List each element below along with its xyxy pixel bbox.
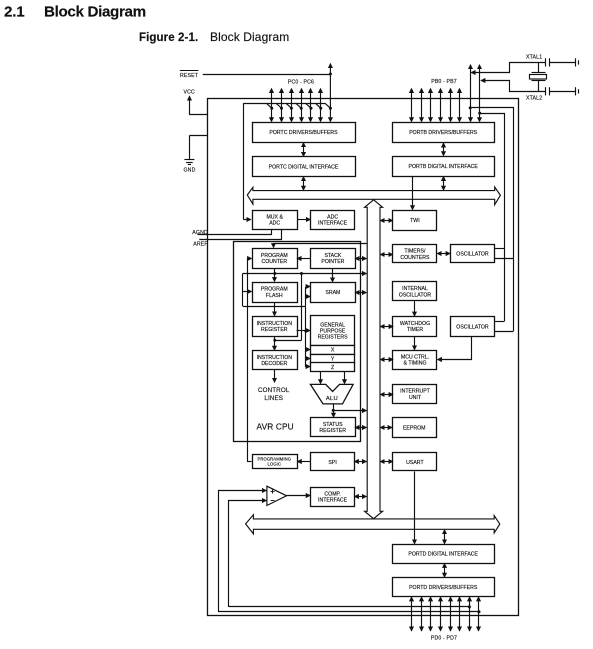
- GND wire horizontal: [189, 135, 207, 137]
- wire program counter left to programming logic: [247, 258, 249, 462]
- wire comp interface to bus: [355, 496, 367, 498]
- port C pin wire PC4: [310, 89, 312, 122]
- USART: [393, 453, 437, 471]
- AREF wire: [199, 229, 281, 240]
- wire PORTB digital interface to TWI: [412, 176, 414, 210]
- wire W1 loop to bus: [243, 273, 367, 275]
- port D pin wire PD5: [459, 597, 461, 631]
- watchdog timer: [393, 317, 437, 337]
- junction dot PC1 tap: [280, 107, 283, 110]
- svg-text:COUNTER: COUNTER: [261, 259, 287, 265]
- port C pin wire PC3: [301, 89, 303, 122]
- port D digital interface: [393, 545, 495, 564]
- port B pin wire PB7 / XTAL2: [479, 65, 481, 122]
- wire EEPROM to bus: [380, 427, 392, 429]
- capacitor C1 right plate: [549, 58, 551, 66]
- RESET overline: [180, 70, 199, 72]
- arrow ALU branch to bus: [333, 410, 366, 412]
- svg-text:DECODER: DECODER: [261, 361, 287, 367]
- port C pin wire PC1: [281, 89, 283, 122]
- arrow MUX to ADC interface: [297, 219, 310, 221]
- diagonal tap PC5: [315, 103, 321, 108]
- port B digital interface: [393, 157, 495, 177]
- stack pointer: [311, 249, 356, 269]
- port D pin wire PD4: [450, 597, 452, 631]
- arrow stack pointer to program counter: [297, 258, 310, 260]
- svg-text:Y: Y: [331, 356, 335, 362]
- wire USART to PORTD digital interface: [414, 471, 416, 543]
- arrow W1 into program flash left: [243, 291, 252, 293]
- svg-text:INTERNAL: INTERNAL: [402, 286, 428, 292]
- svg-text:OSCILLATOR: OSCILLATOR: [399, 292, 432, 298]
- instruction register: [253, 317, 298, 337]
- ALU: [310, 384, 353, 404]
- analog input rail vertical: [243, 103, 245, 219]
- svg-text:AVR CPU: AVR CPU: [257, 422, 294, 432]
- upper horizontal data bus arrow: [247, 187, 500, 205]
- svg-text:AREF: AREF: [193, 241, 207, 247]
- svg-text:LOGIC: LOGIC: [268, 462, 282, 467]
- arrow into program counter top: [273, 244, 275, 248]
- port D pin wire PD6: [469, 597, 471, 631]
- svg-text:OSCILLATOR: OSCILLATOR: [456, 252, 489, 258]
- wire PORTD digital to drivers: [444, 564, 446, 578]
- svg-text:X: X: [331, 348, 335, 354]
- oscillator lower stub to XTAL1 rail: [495, 331, 514, 333]
- diagonal tap PC6: [325, 103, 331, 108]
- XTAL1 wire to cap end: [550, 62, 576, 64]
- svg-text:PURPOSE: PURPOSE: [320, 329, 346, 335]
- svg-text:COMP.: COMP.: [324, 491, 340, 497]
- SPI: [311, 453, 355, 471]
- arrow V2 into X register: [306, 349, 310, 351]
- svg-text:PROGRAM: PROGRAM: [261, 287, 288, 293]
- program flash: [253, 283, 298, 303]
- wire PORTB drivers to digital interface: [443, 143, 445, 156]
- comparator + wire along bottom: [218, 611, 479, 613]
- analog comparator: [267, 486, 287, 505]
- XTAL2 wire to cap end: [550, 91, 576, 93]
- svg-text:XTAL1: XTAL1: [526, 55, 542, 61]
- analog input rail horizontal: [243, 103, 325, 105]
- svg-text:LINES: LINES: [264, 395, 283, 402]
- arrow GPR to ALU right: [344, 371, 346, 383]
- junction dot PC3 tap: [300, 107, 303, 110]
- VCC wire vertical with arrow up: [189, 96, 191, 115]
- diagonal tap PC4: [306, 103, 312, 108]
- comparator interface: [311, 488, 355, 507]
- wire timers/counters to bus: [380, 254, 392, 256]
- svg-text:CONTROL: CONTROL: [258, 387, 290, 394]
- instruction decoder: [253, 351, 298, 370]
- svg-text:VCC: VCC: [184, 90, 196, 96]
- svg-text:Block Diagram: Block Diagram: [210, 30, 289, 44]
- wire status register to bus: [355, 427, 366, 429]
- svg-text:PORTB DIGITAL INTERFACE: PORTB DIGITAL INTERFACE: [409, 164, 479, 170]
- junction dot PC5 tap: [319, 107, 322, 110]
- svg-text:TIMER: TIMER: [407, 327, 423, 333]
- diagonal tap PC2: [286, 103, 292, 108]
- C2 end terminal stub: [578, 89, 580, 93]
- wire SRAM to bus: [355, 292, 366, 294]
- port D pin wire PD0: [411, 597, 413, 631]
- port D pin wire PD1: [421, 597, 423, 631]
- AVR CPU enclosure box: [234, 242, 361, 442]
- EEPROM: [393, 418, 437, 438]
- diagonal tap PC0: [266, 103, 272, 108]
- diagonal tap PC1: [276, 103, 282, 108]
- wire W1 loop bottom: [243, 306, 306, 308]
- wire stack pointer to bus: [355, 258, 366, 260]
- junction W1 and PC-PF wire: [273, 272, 276, 275]
- port C pin wire PC0: [271, 89, 273, 122]
- junction dot PC0 tap: [270, 107, 273, 110]
- svg-text:PB0 - PB7: PB0 - PB7: [431, 79, 457, 85]
- svg-text:Figure 2-1.: Figure 2-1.: [139, 32, 198, 44]
- AGND wire: [198, 229, 272, 235]
- svg-text:STATUS: STATUS: [323, 422, 343, 428]
- port B pin wire PB2: [430, 89, 432, 122]
- svg-text:TWI: TWI: [410, 218, 420, 224]
- TWI: [393, 211, 437, 231]
- svg-text:MCU CTRL.: MCU CTRL.: [401, 354, 429, 360]
- wire V2 vertical: [305, 287, 307, 367]
- svg-text:GENERAL: GENERAL: [320, 322, 345, 328]
- svg-text:PC0 - PC6: PC0 - PC6: [288, 80, 314, 86]
- XTAL1 wire: [471, 63, 546, 73]
- svg-text:SPI: SPI: [328, 460, 336, 466]
- arrow V2 into SRAM upper: [306, 286, 310, 288]
- svg-text:WATCHDOG: WATCHDOG: [400, 321, 430, 327]
- wire W1 loop vertical: [242, 274, 244, 307]
- chip boundary frame: [208, 99, 519, 616]
- arrow instruction decoder control lines: [274, 370, 276, 383]
- arrow GPR to ALU left: [320, 371, 322, 383]
- svg-text:COUNTERS: COUNTERS: [400, 255, 430, 261]
- arrow program flash to instruction register: [274, 302, 276, 316]
- capacitor C1 left plate: [545, 58, 547, 66]
- svg-text:GND: GND: [184, 167, 196, 173]
- svg-text:AGND: AGND: [192, 230, 208, 236]
- wire MCU ctrl to bus: [380, 359, 393, 361]
- C1 end terminal bar: [575, 58, 577, 66]
- Z register: [311, 363, 355, 372]
- lower horizontal data bus arrow: [246, 515, 500, 534]
- ADC interface: [311, 211, 355, 230]
- port C pin wire PC2: [291, 89, 293, 122]
- program counter: [253, 249, 298, 269]
- comparator - input wire: [229, 501, 267, 607]
- junction dot PC4 tap: [310, 107, 313, 110]
- diagonal tap PC3: [296, 103, 302, 108]
- port C drivers/buffers: [253, 123, 356, 143]
- junction IR bottom branch: [273, 339, 276, 342]
- MCU ctrl and timing: [393, 351, 437, 370]
- arrow into programming logic left: [247, 461, 251, 463]
- svg-text:EEPROM: EEPROM: [403, 425, 425, 431]
- junction - wire to PD6: [468, 605, 471, 608]
- svg-text:& TIMING: & TIMING: [404, 360, 427, 366]
- oscillator upper: [451, 245, 495, 263]
- RESET wire: [203, 74, 331, 76]
- timers/counters: [393, 245, 437, 263]
- junction dot PC6 tap: [329, 107, 332, 110]
- svg-text:PORTD DRIVERS/BUFFERS: PORTD DRIVERS/BUFFERS: [409, 585, 478, 591]
- arrow stack pointer to SRAM: [332, 268, 334, 282]
- arrow instruction register to GPR: [297, 330, 310, 332]
- port D pin wire PD3: [440, 597, 442, 631]
- port C digital interface: [253, 157, 356, 177]
- svg-text:INSTRUCTION: INSTRUCTION: [257, 355, 293, 361]
- port D drivers/buffers: [393, 578, 495, 597]
- junction + wire to PD7: [478, 610, 481, 613]
- port B pin wire PB4: [450, 89, 452, 122]
- general purpose registers: [311, 316, 355, 346]
- arrow ALU to status register: [333, 404, 335, 417]
- status register: [311, 418, 356, 437]
- svg-text:STACK: STACK: [324, 253, 341, 259]
- wire oscillator lower to MCU ctrl: [438, 337, 472, 360]
- svg-text:2.1: 2.1: [4, 3, 25, 20]
- Y register: [311, 355, 355, 364]
- svg-text:REGISTERS: REGISTERS: [318, 335, 349, 341]
- VCC wire horizontal: [189, 114, 207, 116]
- svg-text:TIMERS/: TIMERS/: [404, 249, 426, 255]
- programming logic: [253, 455, 298, 469]
- svg-text:Block Diagram: Block Diagram: [44, 3, 146, 20]
- wire V1 vertical: [301, 274, 303, 341]
- XTAL2 wire: [481, 81, 546, 92]
- comparator + input wire: [219, 491, 267, 612]
- junction PB7 branch: [478, 112, 481, 115]
- svg-text:PORTC DRIVERS/BUFFERS: PORTC DRIVERS/BUFFERS: [269, 130, 338, 136]
- wire timers to oscillator: [437, 253, 450, 255]
- vertical 8-bit data bus arrow: [365, 200, 383, 519]
- GND symbol bar 3: [188, 164, 191, 166]
- svg-text:INTERRUPT: INTERRUPT: [400, 389, 431, 395]
- junction ALU output branch: [332, 409, 335, 412]
- port B pin wire PB6 / XTAL1: [470, 65, 472, 122]
- svg-text:INTERFACE: INTERFACE: [318, 498, 348, 504]
- port B drivers/buffers: [393, 123, 495, 143]
- svg-text:ADC: ADC: [327, 214, 338, 220]
- wire PORTC digital interface to bus: [303, 177, 305, 190]
- arrow internal oscillator to watchdog: [414, 301, 416, 316]
- wire USART to bus: [380, 461, 393, 463]
- svg-text:USART: USART: [406, 460, 424, 466]
- port D pin wire PD2: [430, 597, 432, 631]
- GND wire vertical: [189, 136, 191, 160]
- GND symbol bar 1: [184, 159, 194, 161]
- capacitor C2 left plate: [545, 87, 547, 95]
- arrow into program counter left: [247, 258, 251, 260]
- svg-text:SRAM: SRAM: [325, 290, 340, 296]
- svg-text:ADC: ADC: [269, 221, 280, 227]
- wire watchdog to bus: [380, 326, 393, 328]
- X register: [311, 346, 355, 355]
- svg-text:POINTER: POINTER: [321, 259, 344, 265]
- svg-text:RESET: RESET: [180, 73, 199, 79]
- arrow V2 into SRAM lower: [306, 296, 310, 298]
- svg-text:MUX &: MUX &: [266, 214, 283, 220]
- internal oscillator: [393, 282, 437, 301]
- wire TWI to bus: [380, 220, 392, 222]
- port D pin wire PD7: [478, 597, 480, 631]
- svg-text:REGISTER: REGISTER: [261, 327, 288, 333]
- oscillator lower: [451, 317, 495, 337]
- svg-text:XTAL2: XTAL2: [526, 95, 542, 101]
- wire SPI to bus: [355, 461, 367, 463]
- GND symbol bar 2: [186, 162, 193, 164]
- arrow instruction register to decoder: [274, 337, 276, 351]
- crystal Y1: [530, 63, 547, 92]
- arrow analog rail into MUX & ADC: [243, 219, 250, 221]
- svg-text:ALU: ALU: [326, 396, 338, 402]
- svg-text:OSCILLATOR: OSCILLATOR: [456, 324, 489, 330]
- svg-text:REGISTER: REGISTER: [319, 428, 346, 434]
- wire bus to PORTD digital interface: [444, 530, 446, 544]
- oscillator lower stub to XTAL2 rail: [495, 321, 505, 323]
- junction dot PC2 tap: [290, 107, 293, 110]
- port B pin wire PB3: [440, 89, 442, 122]
- svg-text:INSTRUCTION: INSTRUCTION: [257, 321, 293, 327]
- arrow SPI to programming logic: [297, 461, 310, 463]
- SRAM: [311, 283, 356, 303]
- wire PORTC drivers to digital interface: [303, 143, 305, 157]
- svg-text:Z: Z: [331, 365, 334, 371]
- arrow V2 into Z register: [306, 366, 310, 368]
- arrow V2 into Y register: [306, 358, 310, 360]
- wire interrupt unit to bus: [380, 394, 393, 396]
- oscillator upper stub to XTAL2 rail: [495, 248, 505, 250]
- wire PB6 branch to right rail: [470, 108, 513, 332]
- svg-text:PORTB DRIVERS/BUFFERS: PORTB DRIVERS/BUFFERS: [409, 130, 477, 136]
- port B pin wire PB0: [411, 89, 413, 122]
- arrow program counter to program flash: [274, 268, 276, 281]
- svg-text:INTERFACE: INTERFACE: [318, 221, 348, 227]
- comparator - wire along bottom: [229, 606, 470, 608]
- svg-text:FLASH: FLASH: [266, 293, 283, 299]
- capacitor C2 right plate: [549, 87, 551, 95]
- junction PB6 branch: [469, 106, 472, 109]
- svg-text:PD0 - PD7: PD0 - PD7: [431, 636, 457, 642]
- interrupt unit: [393, 385, 437, 404]
- arrow watchdog to MCU ctrl: [414, 336, 416, 350]
- junction RESET to PC6 line: [329, 73, 332, 76]
- svg-text:PROGRAM: PROGRAM: [261, 253, 288, 259]
- C2 end terminal bar: [575, 87, 577, 95]
- C1 end terminal stub: [578, 60, 580, 64]
- oscillator upper stub to XTAL1 rail: [495, 258, 514, 260]
- port B pin wire PB1: [421, 89, 423, 122]
- port B pin wire PB5: [459, 89, 461, 122]
- svg-text:PORTC DIGITAL INTERFACE: PORTC DIGITAL INTERFACE: [269, 164, 339, 170]
- junction V2 on IR-GPR wire: [304, 330, 307, 333]
- junction V1 top on W1: [300, 272, 303, 275]
- svg-text:UNIT: UNIT: [409, 395, 422, 401]
- port C pin wire PC5: [320, 89, 322, 122]
- port C pin wire PC6 / RESET: [329, 64, 331, 122]
- comparator output to comp interface: [287, 495, 311, 497]
- svg-text:PORTD DIGITAL INTERFACE: PORTD DIGITAL INTERFACE: [408, 551, 478, 557]
- wire bus to program counter horizontal: [274, 243, 367, 245]
- wire PORTB digital interface to bus: [443, 177, 445, 191]
- mux and ADC: [253, 211, 298, 230]
- wire PB7 branch to right rail: [480, 114, 505, 322]
- wire IR bottom branch horizontal: [275, 340, 302, 342]
